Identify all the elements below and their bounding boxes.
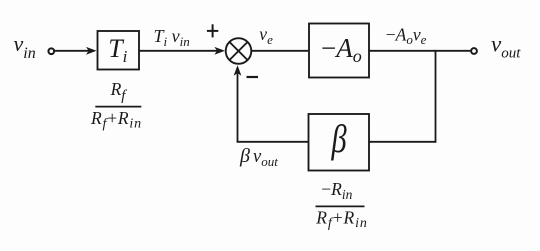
- summing junction: [226, 38, 252, 64]
- svg-text:β: β: [331, 116, 347, 161]
- output terminal node: [471, 48, 477, 54]
- wire branch down to beta: [435, 50, 437, 142]
- wire -Ao to output node: [370, 50, 471, 52]
- wire summer to -Ao block: [252, 50, 309, 52]
- block -Ao: [309, 24, 369, 78]
- block T_i: [98, 31, 140, 70]
- block beta: [309, 114, 370, 171]
- minus sign: [247, 76, 259, 78]
- feedback wire beta to summer: [237, 141, 309, 143]
- wire T_i to summer: [140, 50, 218, 52]
- input terminal node: [48, 48, 54, 54]
- svg-text:−Aove: −Aove: [386, 25, 427, 48]
- wire input to T_i: [55, 50, 89, 52]
- plus sign: [207, 30, 218, 32]
